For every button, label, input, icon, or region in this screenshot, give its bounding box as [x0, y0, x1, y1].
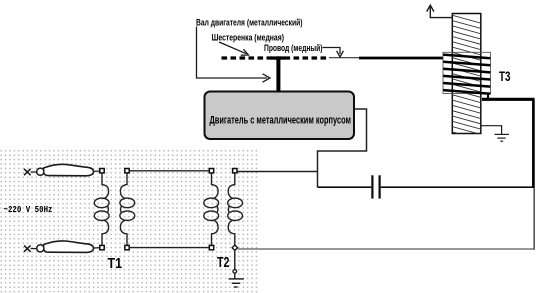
shaft: motor shaft T-bar	[271, 56, 285, 92]
svg-text:T1: T1	[108, 255, 123, 272]
fuse F2 lead left	[31, 248, 37, 250]
fuse F1 body	[37, 164, 94, 175]
T3 winding box	[443, 52, 491, 93]
ground under T2	[229, 250, 244, 287]
ground near T3	[481, 126, 509, 142]
wire: T1 secondary to T2 primary bottom rail	[127, 247, 212, 249]
T1 terminals (squares)	[100, 169, 129, 250]
leader arrow from gear label to gear line	[219, 42, 249, 55]
svg-text:Вал двигателя (металлический): Вал двигателя (металлический)	[196, 18, 303, 28]
wire: T1 secondary to T2 primary top rail	[127, 170, 212, 172]
svg-text:Шестеренка (медная): Шестеренка (медная)	[212, 33, 285, 43]
wire: right vertical lower segment	[533, 187, 535, 250]
motor M1: motor body box	[205, 92, 355, 140]
stipple background region	[0, 148, 260, 293]
T2 junction diamond	[232, 245, 237, 250]
transformer T2 primary winding	[204, 173, 219, 245]
fuse F2 body	[37, 241, 94, 252]
wire: T3 secondary thick output	[482, 98, 535, 101]
transformer T1 primary winding	[94, 173, 109, 245]
capacitor C1	[371, 175, 380, 198]
fuse F1 lead right	[94, 170, 100, 172]
svg-text:T2: T2	[217, 254, 230, 271]
transformer T1 secondary winding	[120, 173, 135, 245]
leader arrow from shaft label to shaft	[197, 27, 271, 83]
svg-text:T3: T3	[499, 68, 511, 84]
capacitor C1 left wire	[318, 186, 372, 188]
T3 top arrow (antenna)	[427, 5, 453, 17]
svg-text:Провод (медный): Провод (медный)	[264, 43, 323, 53]
T2 terminals (squares)	[209, 169, 237, 250]
gear: dashed copper gear line	[222, 56, 328, 59]
transformer T3 core	[452, 14, 481, 134]
svg-text:Двигатель с металлическим корп: Двигатель с металлическим корпусом	[210, 115, 352, 127]
T3 winding turns (thick)	[443, 55, 490, 94]
transformer T2 secondary winding	[228, 173, 243, 245]
fuse F1 x-terminal	[24, 169, 31, 175]
label: motor shaft text	[196, 18, 303, 28]
fuse F2 lead right	[94, 247, 100, 249]
wire: T2 secondary top to node	[237, 171, 318, 173]
T3 core hatching	[452, 15, 481, 140]
label: gear text	[212, 33, 285, 43]
label: wire (copper) text	[264, 43, 323, 53]
fuse F2 x-terminal	[24, 245, 31, 251]
wire: right vertical upper segment (thick)	[532, 99, 535, 188]
leader arrow from wire label down to wire	[323, 48, 344, 58]
fuse F1 lead left	[31, 171, 37, 173]
wire: thick lead into T3 primary	[359, 57, 444, 60]
capacitor C1 right wire	[381, 186, 534, 188]
wire: motor case to capacitor node	[318, 109, 367, 187]
svg-text:~220 V 50Hz: ~220 V 50Hz	[4, 205, 53, 215]
wire: thin copper wire from gear	[329, 57, 361, 59]
wire: bottom long return wire	[238, 248, 535, 250]
wire: winding end to output corner	[487, 94, 489, 100]
